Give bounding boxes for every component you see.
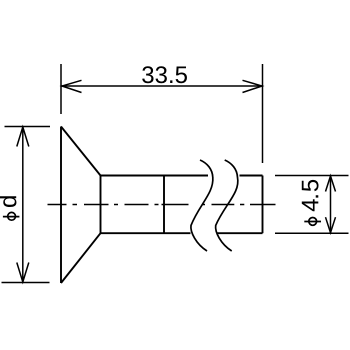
dimension phi-4.5 top extension line bbox=[275, 175, 349, 177]
dimension 33.5 left arrowhead bbox=[62, 80, 82, 92]
break line curve 2 bbox=[216, 160, 238, 251]
shaft bottom edge left segment bbox=[101, 232, 191, 234]
dimension 33.5 left extension line bbox=[60, 64, 62, 114]
dimension phi-4.5 bottom extension line bbox=[275, 232, 349, 234]
dimension phi-4.5 top arrowhead bbox=[326, 176, 336, 192]
shaft intermediate vertical line bbox=[163, 176, 165, 234]
dimension text phi-4.5: phi symbol stem bbox=[304, 221, 321, 223]
head-shaft junction vertical line bbox=[100, 176, 102, 234]
dimension text phi-d: phi symbol stem bbox=[3, 216, 20, 218]
dimension phi-4.5 bottom arrowhead bbox=[326, 217, 336, 233]
shaft top edge left segment bbox=[101, 175, 209, 177]
centerline (axis, dash-dot) bbox=[48, 204, 276, 206]
dimension text 33.5 bbox=[142, 66, 187, 83]
screw head top slanted edge bbox=[61, 127, 101, 176]
dimension phi-d top arrowhead bbox=[17, 127, 29, 147]
dimension phi-d line bbox=[22, 127, 24, 282]
screw head bottom slanted edge bbox=[61, 233, 101, 283]
break line curve 1 bbox=[191, 160, 213, 251]
dimension text phi-4.5: digits 4.5 (rotated) bbox=[302, 180, 319, 211]
dimension 33.5 right extension line bbox=[262, 64, 264, 163]
dimension phi-d top extension line bbox=[5, 126, 51, 128]
dimension phi-4.5 line bbox=[330, 176, 332, 233]
dimension 33.5 line bbox=[62, 85, 263, 87]
dimension 33.5 right arrowhead bbox=[243, 80, 263, 92]
dimension text phi-4.5: phi symbol circle bbox=[309, 218, 317, 226]
shaft top edge right segment bbox=[240, 175, 263, 177]
dimension text phi-d: letter d (rotated) bbox=[0, 196, 16, 207]
shaft bottom edge right segment bbox=[218, 232, 263, 234]
shaft right end vertical edge bbox=[262, 176, 264, 234]
dimension phi-d bottom extension line bbox=[2, 282, 50, 284]
dimension text phi-d: phi symbol circle bbox=[8, 212, 16, 220]
screw head left vertical edge bbox=[60, 127, 62, 284]
dimension phi-d bottom arrowhead bbox=[17, 263, 29, 283]
